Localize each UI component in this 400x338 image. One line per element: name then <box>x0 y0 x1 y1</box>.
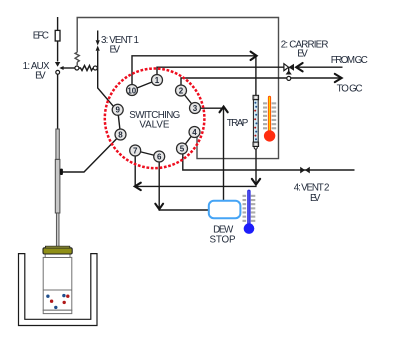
svg-text:TRAP: TRAP <box>227 118 249 129</box>
svg-text:TO GC: TO GC <box>337 84 363 95</box>
svg-text:3: 3 <box>193 104 198 113</box>
svg-text:EV: EV <box>297 49 308 60</box>
svg-text:STOP: STOP <box>210 235 236 246</box>
svg-text:VALVE: VALVE <box>139 120 169 131</box>
svg-text:EV: EV <box>110 44 121 55</box>
svg-text:4: VENT 2: 4: VENT 2 <box>294 183 330 194</box>
svg-text:EV: EV <box>310 193 321 204</box>
svg-text:EV: EV <box>35 70 46 81</box>
svg-text:9: 9 <box>115 106 120 115</box>
svg-text:5: 5 <box>180 144 185 153</box>
svg-text:2: 2 <box>179 86 184 95</box>
svg-text:FROM GC: FROM GC <box>331 55 368 66</box>
svg-text:1: 1 <box>155 76 160 85</box>
svg-text:8: 8 <box>118 130 123 139</box>
svg-text:7: 7 <box>133 146 138 155</box>
svg-text:EFC: EFC <box>33 30 49 41</box>
svg-text:4: 4 <box>192 128 197 137</box>
svg-text:6: 6 <box>157 152 162 161</box>
svg-text:10: 10 <box>127 87 136 96</box>
